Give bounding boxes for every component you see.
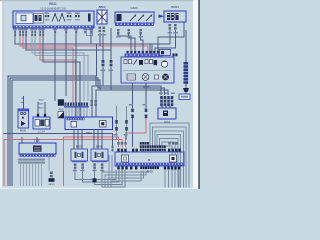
wire hatch v4 <box>29 164 31 186</box>
wire stack x111 to box <box>96 67 111 117</box>
PSF1 inner wire <box>123 70 172 72</box>
wire strip stub8 <box>86 106 88 117</box>
wire B14 stub3 <box>169 106 171 108</box>
wire CA00 pin2 <box>129 33 136 54</box>
wire battery right pin to stack <box>102 33 104 60</box>
inline connector x116 <box>115 120 118 131</box>
wire strip stub4 <box>74 106 76 117</box>
wire psf1 bottom stub2 <box>145 83 147 108</box>
svg-text:BH28: BH28 <box>147 171 154 174</box>
wire strip stub1 <box>65 106 67 117</box>
wire hatch v5 <box>32 164 34 186</box>
connector ladder CT right <box>184 62 189 84</box>
pin group right BB11 <box>75 13 80 15</box>
wire B10 top stub2 <box>36 137 38 143</box>
PSF1 small sq <box>155 75 159 79</box>
svg-text:8040: 8040 <box>39 100 45 102</box>
wire wedge stub <box>185 92 187 95</box>
frame left inner line <box>2 0 5 189</box>
BH28 top pins left <box>117 142 126 145</box>
BH28 top pins right <box>112 142 178 151</box>
wire B9 down2 <box>77 130 79 149</box>
wire B14 stub1 <box>161 106 163 108</box>
actuator BX58 <box>91 149 108 162</box>
wire B14 stub2 <box>165 106 167 108</box>
interconnect strip pins <box>65 103 89 106</box>
inline connector x146 <box>145 109 148 119</box>
svg-text:PSF1: PSF1 <box>143 86 151 90</box>
diode block <box>58 100 64 106</box>
PSF1 switch <box>134 60 138 65</box>
wire psf1 bottom stub1 <box>132 83 134 108</box>
PSF1 fuse f4 <box>150 60 153 64</box>
svg-text:BX57: BX57 <box>76 145 83 149</box>
id text group BB11 <box>67 13 72 15</box>
wire right loop k6 <box>164 146 172 189</box>
wire B13 left v1 <box>108 155 110 178</box>
BH28 bottom pins <box>117 167 180 170</box>
wire B10 top stub1 <box>21 137 23 143</box>
wire top gray y53 <box>32 28 84 101</box>
ECU BH28 <box>115 152 184 166</box>
fusebox PSF1 <box>121 57 174 83</box>
wire hatch v3 <box>26 164 28 186</box>
connector wedge <box>183 88 189 92</box>
terminal strip hatch <box>18 159 45 164</box>
small id box top right <box>179 94 190 100</box>
frame right white strip <box>193 0 198 189</box>
connector row under BB11 <box>13 29 93 31</box>
wire B9 down4 <box>93 130 95 149</box>
BM34 pins below <box>169 24 177 30</box>
wire hatch v8 <box>41 164 43 186</box>
wire hatch v7 <box>38 164 40 186</box>
PSF1 lamp symbol <box>142 74 149 81</box>
relay box BB11 <box>13 11 94 28</box>
svg-text:1K10: 1K10 <box>164 120 171 124</box>
svg-text:12 10 30 86 85 87 2 5 8: 12 10 30 86 85 87 2 5 8 <box>40 8 66 11</box>
PSF1 dark motor <box>162 74 169 81</box>
wire right loop k4 <box>160 138 178 189</box>
wire right loop k3 <box>157 135 180 189</box>
wire B9 down1 <box>73 130 75 149</box>
wire bottom left loop3 <box>105 171 146 190</box>
wire right loop k1 <box>152 127 186 189</box>
splice node <box>93 178 97 182</box>
motor unit M010 <box>18 109 29 128</box>
wire bottom left loop1 <box>111 171 141 190</box>
svg-text:CA00: CA00 <box>131 6 138 10</box>
wire bottom right v3 <box>178 170 180 189</box>
wire vertical x76 <box>75 28 77 117</box>
wire left bus A3 <box>12 80 168 186</box>
wire B11 down loop1 <box>75 169 116 180</box>
PSF1 motor circle <box>161 61 167 67</box>
wire B8 pin feed1 <box>37 102 39 114</box>
wire ladder feed <box>185 30 187 62</box>
wire B12 down4 <box>102 169 125 187</box>
svg-text:1 2 3 4: 1 2 3 4 <box>37 131 45 134</box>
fuse F4 in BB11 <box>88 14 91 22</box>
svg-text:BB00: BB00 <box>99 5 106 9</box>
1K10 pin grid <box>160 96 173 106</box>
wire vertical x91 <box>90 28 92 44</box>
inline connector x131 <box>131 109 134 119</box>
tiny id labels <box>73 32 178 171</box>
splice component bottom-left <box>49 172 55 182</box>
strip side pins <box>91 100 97 106</box>
switch S2 in BB11 <box>59 14 65 22</box>
PSF1 resistor symbol <box>127 74 136 80</box>
svg-text:4WD: 4WD <box>58 109 64 112</box>
wire strip stub2 <box>68 106 70 117</box>
wire top dark y60 <box>43 28 80 117</box>
wire far left dark bus <box>3 134 113 147</box>
svg-text:BB11: BB11 <box>49 2 57 6</box>
wire x111 upper <box>110 28 112 60</box>
svg-text:BX58: BX58 <box>96 145 103 149</box>
wire ladder to wedge <box>185 84 187 88</box>
battery pins <box>99 27 106 33</box>
svg-text:8043: 8043 <box>39 104 45 106</box>
wire top gray y55 <box>35 28 88 101</box>
PSF1 relay dark <box>139 60 143 65</box>
wire motor feed <box>23 96 25 109</box>
wire BM34 loop <box>158 22 184 54</box>
frame top line <box>0 0 200 1</box>
wire right loop k5 <box>162 142 175 189</box>
wire B12 down loop3 <box>95 169 123 185</box>
wire BM34 pin2 <box>155 30 176 54</box>
sensor 1K10 <box>158 108 176 119</box>
PSF1 top pins <box>127 51 160 53</box>
wire BM34 pin1 <box>150 30 170 54</box>
svg-text:MC33: MC33 <box>49 184 56 186</box>
wire right loop k2 <box>155 131 184 189</box>
control unit BSI1 <box>65 117 113 130</box>
wire B13 left v2 <box>111 155 113 178</box>
frame left white <box>0 0 3 189</box>
inline connector x126 <box>125 120 128 131</box>
switch S1 in BB11 <box>52 14 58 22</box>
wire stack x103 to box <box>92 67 103 117</box>
wire B9 down6 <box>101 130 103 149</box>
BH28 top pin cluster <box>140 142 166 151</box>
wire top dark y44 <box>15 28 152 54</box>
wire hatch v2 <box>23 164 25 186</box>
wire CA00 pin1 <box>118 33 131 54</box>
wire CA00 pin3 <box>141 33 144 54</box>
C001 top pins <box>37 114 39 117</box>
wire battery left pin <box>99 33 101 46</box>
wire B11 down loop2 <box>83 169 120 182</box>
svg-text:8044: 8044 <box>39 108 45 110</box>
wire red bus C <box>126 118 147 147</box>
wire bottom right v2 <box>168 170 170 189</box>
PSF1 relay dark2 <box>154 60 158 65</box>
fuse box BM34 <box>159 11 187 22</box>
wire strip stub5 <box>77 106 79 117</box>
PSF1 corner connector <box>160 50 171 56</box>
CA00 pins below <box>117 29 142 34</box>
wire bottom left loop2 <box>108 171 143 190</box>
wire B10 right branch <box>48 154 50 171</box>
interconnect strip bar <box>64 106 89 107</box>
wire pin stack x126 <box>126 106 128 140</box>
wire top dark y50 <box>26 28 111 60</box>
PSF1 fuse f1 <box>124 60 127 64</box>
sensor C001 <box>33 117 50 129</box>
wire strip stub6 <box>80 106 82 117</box>
wire B8 pin feed2 <box>44 102 46 114</box>
wire top red y46 <box>20 28 148 54</box>
svg-text:BM34: BM34 <box>171 5 179 9</box>
svg-text:1700: 1700 <box>34 139 40 143</box>
wire vertical x55 <box>54 28 56 101</box>
PSF1 fuse f2 <box>129 60 132 64</box>
wire top red y58 <box>40 28 76 103</box>
wire top red y48 <box>23 28 73 103</box>
wire left bus A2 <box>10 78 165 186</box>
wire red bus A <box>64 137 119 186</box>
wire left bus A1 <box>8 76 161 186</box>
frame right dark strip <box>198 0 200 189</box>
split square <box>58 112 64 119</box>
wire stack x132 to pin <box>132 118 134 147</box>
wire pin stack x116 <box>116 106 118 140</box>
frame bottom band <box>0 188 200 189</box>
BB11 bottom pin band <box>14 25 94 27</box>
wire bottom left loop4 <box>102 171 148 190</box>
wire right loop k0 <box>150 123 189 189</box>
wire strip stub3 <box>71 106 73 117</box>
wire B9 down5 <box>97 130 99 149</box>
wire vertical x66 <box>65 28 67 96</box>
BX57 pins <box>74 163 84 168</box>
relay plate 1700 <box>19 143 56 157</box>
wire hatch v1 <box>20 164 22 186</box>
wire bottom right v1 <box>164 170 166 189</box>
svg-text:M010: M010 <box>20 130 27 133</box>
wire strip stub7 <box>83 106 85 117</box>
ignition switch CA00 <box>115 12 154 26</box>
wire junction x96 <box>96 44 98 76</box>
BX58 pins <box>93 163 103 168</box>
wire hatch v6 <box>35 164 37 186</box>
actuator BX57 <box>71 149 88 162</box>
svg-text:BSI1: BSI1 <box>86 131 92 135</box>
wire red bus B <box>4 140 122 187</box>
wires-layer <box>3 22 189 189</box>
battery BB00 <box>97 10 107 24</box>
wire B9 down3 <box>81 130 83 149</box>
inline connector x103 <box>102 60 113 66</box>
PSF1 fuse f3 <box>145 60 148 64</box>
